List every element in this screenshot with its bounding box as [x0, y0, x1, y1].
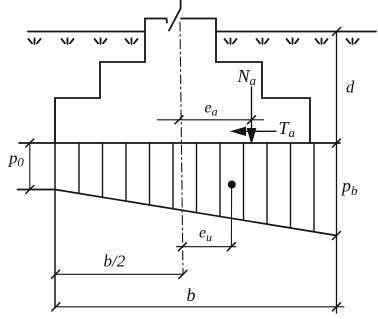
- left extension line: [54, 98, 56, 307]
- tick b/2 right: [179, 270, 187, 278]
- wall left stepped outline: [55, 19, 145, 144]
- ground line left: [28, 31, 145, 33]
- e_a dimension line: [158, 119, 264, 121]
- tick e_u left: [179, 243, 187, 251]
- svg-text:Na: Na: [237, 66, 257, 88]
- svg-text:ea: ea: [205, 100, 218, 119]
- tick p_b bottom: [333, 232, 341, 240]
- svg-text:b: b: [187, 285, 196, 305]
- tick b left: [52, 303, 60, 311]
- tick e_a left: [175, 116, 183, 124]
- wall stem top with break symbol: [145, 19, 167, 23]
- right extension / d and p_b dimension line: [336, 32, 338, 314]
- force T_a arrowhead: [232, 127, 246, 135]
- b dimension line: [56, 306, 344, 308]
- svg-text:Ta: Ta: [279, 118, 296, 140]
- force N_a arrowhead: [247, 129, 255, 144]
- svg-text:d: d: [346, 78, 355, 97]
- ground hatch marks right: [225, 38, 359, 44]
- centroid stem: [230, 188, 232, 247]
- tick p0 top: [26, 139, 34, 147]
- b/2 dimension line: [56, 273, 184, 275]
- ground hatch marks left: [29, 38, 138, 44]
- svg-text:p0: p0: [8, 149, 25, 170]
- tick d top: [333, 28, 341, 36]
- tick b/2 left: [52, 270, 60, 278]
- svg-text:b/2: b/2: [104, 252, 126, 271]
- e_u dimension line: [177, 246, 237, 248]
- force N_a shaft: [251, 87, 253, 132]
- ground line right: [216, 31, 376, 33]
- tick b right: [333, 303, 341, 311]
- centroid dot: [228, 181, 236, 189]
- svg-text:pb: pb: [340, 176, 358, 199]
- tick d bottom / p_b top: [333, 139, 341, 147]
- p0 dimension line: [29, 143, 31, 190]
- force T_a shaft: [244, 130, 276, 132]
- foundation base line: [19, 142, 340, 144]
- tick e_u right: [227, 243, 235, 251]
- pressure hatch lines: [79, 143, 314, 232]
- svg-text:eu: eu: [199, 225, 212, 245]
- tick p0 bottom: [26, 186, 34, 194]
- pressure diagram bottom edge: [18, 190, 337, 236]
- wall right stepped outline: [216, 19, 310, 144]
- tick e_a right: [248, 116, 256, 124]
- centerline (dash-dot): [180, 22, 183, 275]
